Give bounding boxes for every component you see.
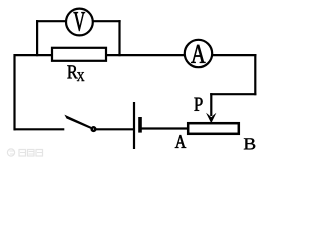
wire: horizontal to slider — [210, 93, 256, 95]
wire: main top wire left segment — [14, 54, 52, 56]
wire: voltmeter left dropper vertical — [36, 20, 38, 56]
label Rx — [67, 65, 84, 81]
slider arrow P — [206, 93, 216, 123]
rheostat — [188, 123, 239, 134]
battery — [134, 102, 140, 149]
resistor Rx — [52, 48, 106, 61]
wire: voltmeter branch left horizontal — [36, 20, 66, 22]
label B (rheostat right terminal) — [244, 138, 255, 149]
wire: left vertical — [13, 54, 15, 130]
watermark — [7, 149, 42, 156]
switch S — [64, 115, 95, 131]
wire: bottom left horizontal — [14, 128, 65, 130]
wire: battery to switch — [96, 128, 134, 130]
wire: main top wire right segment — [212, 54, 256, 56]
wire: voltmeter right dropper vertical — [118, 20, 120, 56]
ammeter A — [185, 40, 212, 67]
voltmeter V — [66, 9, 93, 36]
wire: bottom right (rheostat A terminal to battery) — [140, 127, 188, 129]
label P — [194, 98, 202, 111]
wire: main top wire middle segment — [106, 54, 185, 56]
wire: voltmeter branch right horizontal — [93, 20, 121, 22]
wire: right vertical — [254, 54, 256, 95]
label A (rheostat left terminal) — [175, 135, 186, 148]
